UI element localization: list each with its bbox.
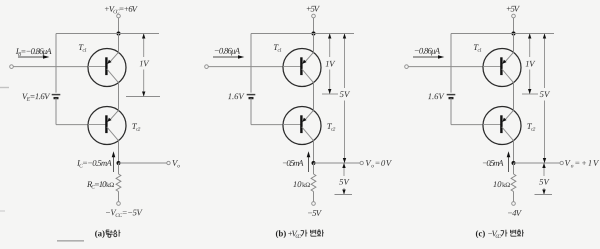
node +VCC rail junction	[117, 32, 121, 36]
wire input to T1 base	[208, 66, 283, 68]
label output voltage	[565, 160, 599, 167]
wire T1 collector to T2 emitter	[313, 83, 315, 111]
label transistor Tc2	[527, 123, 535, 130]
wire battery to T2 base	[451, 98, 483, 125]
terminal input	[405, 65, 409, 69]
label collector current	[77, 160, 112, 167]
wire +VCC terminal to node	[118, 18, 120, 34]
node output junction	[117, 161, 121, 165]
terminal output Vo	[560, 161, 563, 164]
power -VCC label	[508, 210, 522, 216]
terminal -VCC	[312, 202, 316, 206]
transistor Tc1 (pnp upper)	[483, 49, 521, 87]
arrow collector current IC	[507, 151, 511, 172]
caption (c)	[476, 230, 524, 238]
caption (b)	[276, 230, 324, 238]
node output junction	[512, 161, 516, 165]
wire bottom reference tick for 5V dimension	[335, 194, 353, 196]
label battery value	[228, 93, 245, 99]
terminal -VCC	[117, 202, 121, 206]
wire +VCC terminal to node	[513, 18, 515, 34]
power +VCC label (+5V)	[307, 6, 320, 12]
wire T2 collector to output node	[313, 141, 315, 163]
terminal +VCC	[512, 14, 516, 18]
resistor RC 10k	[311, 174, 316, 192]
label dimension 5V upper with arrows	[340, 34, 350, 164]
power -VCC label	[106, 210, 143, 217]
transistor Ta2 (pnp lower)	[88, 107, 126, 145]
label battery value	[22, 93, 50, 100]
wire T1 collector to T2 emitter	[118, 83, 120, 111]
node output junction	[312, 161, 316, 165]
wire output node to resistor	[513, 163, 515, 174]
arrow input current direction	[213, 55, 244, 59]
label transistor Tc1	[274, 44, 281, 51]
arrow input current direction	[18, 55, 49, 59]
label resistor value	[87, 181, 114, 188]
label input base current	[16, 48, 52, 56]
wire input to T1 base	[408, 66, 483, 68]
terminal output Vo	[167, 161, 170, 164]
label transistor Tc2	[327, 123, 335, 130]
arrow collector current IC	[112, 151, 116, 172]
label dimension 1V with arrows	[526, 34, 536, 95]
wire mid reference line for 1V dimension	[322, 93, 338, 95]
label resistor value	[493, 181, 510, 187]
battery VE 1.6V	[52, 95, 61, 99]
terminal input	[10, 65, 14, 69]
wire VCC rail down to battery	[250, 34, 252, 93]
wire output	[119, 162, 167, 164]
resistor RC 10k	[511, 174, 516, 192]
label transistor Tc1	[474, 44, 481, 51]
wire T1 collector to T2 emitter	[513, 83, 515, 111]
transistor Tb2 (pnp lower)	[283, 107, 321, 145]
wire output	[514, 162, 561, 164]
wire top rail	[451, 33, 554, 35]
node +VCC rail junction	[312, 32, 316, 36]
wire VCC node to T1 emitter	[513, 34, 515, 53]
label input base current	[415, 48, 440, 56]
label resistor value	[293, 181, 310, 187]
terminal input	[205, 65, 209, 69]
label input base current	[215, 48, 240, 56]
wire output node to resistor	[313, 163, 315, 174]
wire mid reference line for 1V dimension	[522, 93, 538, 95]
battery VE 1.6V	[247, 95, 256, 99]
wire VCC rail down to battery	[450, 34, 452, 93]
wire resistor to -VCC terminal	[513, 192, 515, 202]
wire resistor to -VCC terminal	[313, 192, 315, 202]
terminal output Vo	[360, 161, 363, 164]
label output voltage	[172, 160, 179, 167]
wire battery to T2 base	[56, 98, 88, 125]
label dimension 1V with arrows	[140, 34, 150, 97]
label output voltage	[366, 160, 392, 167]
node +VCC rail junction	[512, 32, 516, 36]
wire output node to resistor	[118, 163, 120, 174]
wire resistor to -VCC terminal	[118, 192, 120, 202]
power -VCC label	[308, 210, 322, 216]
label dimension 5V upper with arrows	[540, 34, 550, 164]
label battery value	[428, 93, 445, 99]
scan artifact streaks (decorative)	[0, 88, 84, 241]
wire battery to T2 base	[251, 98, 283, 125]
resistor RC 10k	[116, 174, 121, 192]
label transistor Tc2	[132, 123, 140, 130]
label collector current	[483, 160, 504, 166]
label dimension 5V lower with arrows	[339, 163, 349, 195]
wire VCC node to T1 emitter	[118, 34, 120, 53]
terminal -VCC	[512, 202, 516, 206]
arrow input current direction	[413, 55, 444, 59]
label transistor Tc1	[79, 44, 86, 51]
terminal +VCC	[312, 14, 316, 18]
wire output	[314, 162, 361, 164]
wire VCC rail down to battery	[55, 34, 57, 93]
terminal +VCC	[117, 14, 121, 18]
arrow collector current IC	[307, 151, 311, 172]
wire mid reference line for 1V dimension	[126, 96, 160, 98]
wire bottom reference tick for 5V dimension	[535, 194, 553, 196]
battery VE 1.6V	[447, 95, 456, 99]
transistor Ta1 (pnp upper)	[88, 49, 126, 87]
power +VCC label (+VCC=+6V)	[105, 6, 138, 13]
wire top rail	[56, 33, 159, 35]
wire input to T1 base	[13, 66, 88, 68]
power +VCC label (+5V)	[507, 6, 520, 12]
wire top rail	[251, 33, 354, 35]
caption (a)	[95, 230, 120, 238]
wire T2 collector to output node	[118, 141, 120, 163]
transistor Tc2 (pnp lower)	[483, 107, 521, 145]
wire VCC node to T1 emitter	[313, 34, 315, 53]
wire +VCC terminal to node	[313, 18, 315, 34]
wire T2 collector to output node	[513, 141, 515, 163]
label dimension 1V with arrows	[326, 34, 336, 95]
label dimension 5V lower with arrows	[539, 163, 549, 195]
transistor Tb1 (pnp upper)	[283, 49, 321, 87]
label collector current	[283, 160, 304, 166]
